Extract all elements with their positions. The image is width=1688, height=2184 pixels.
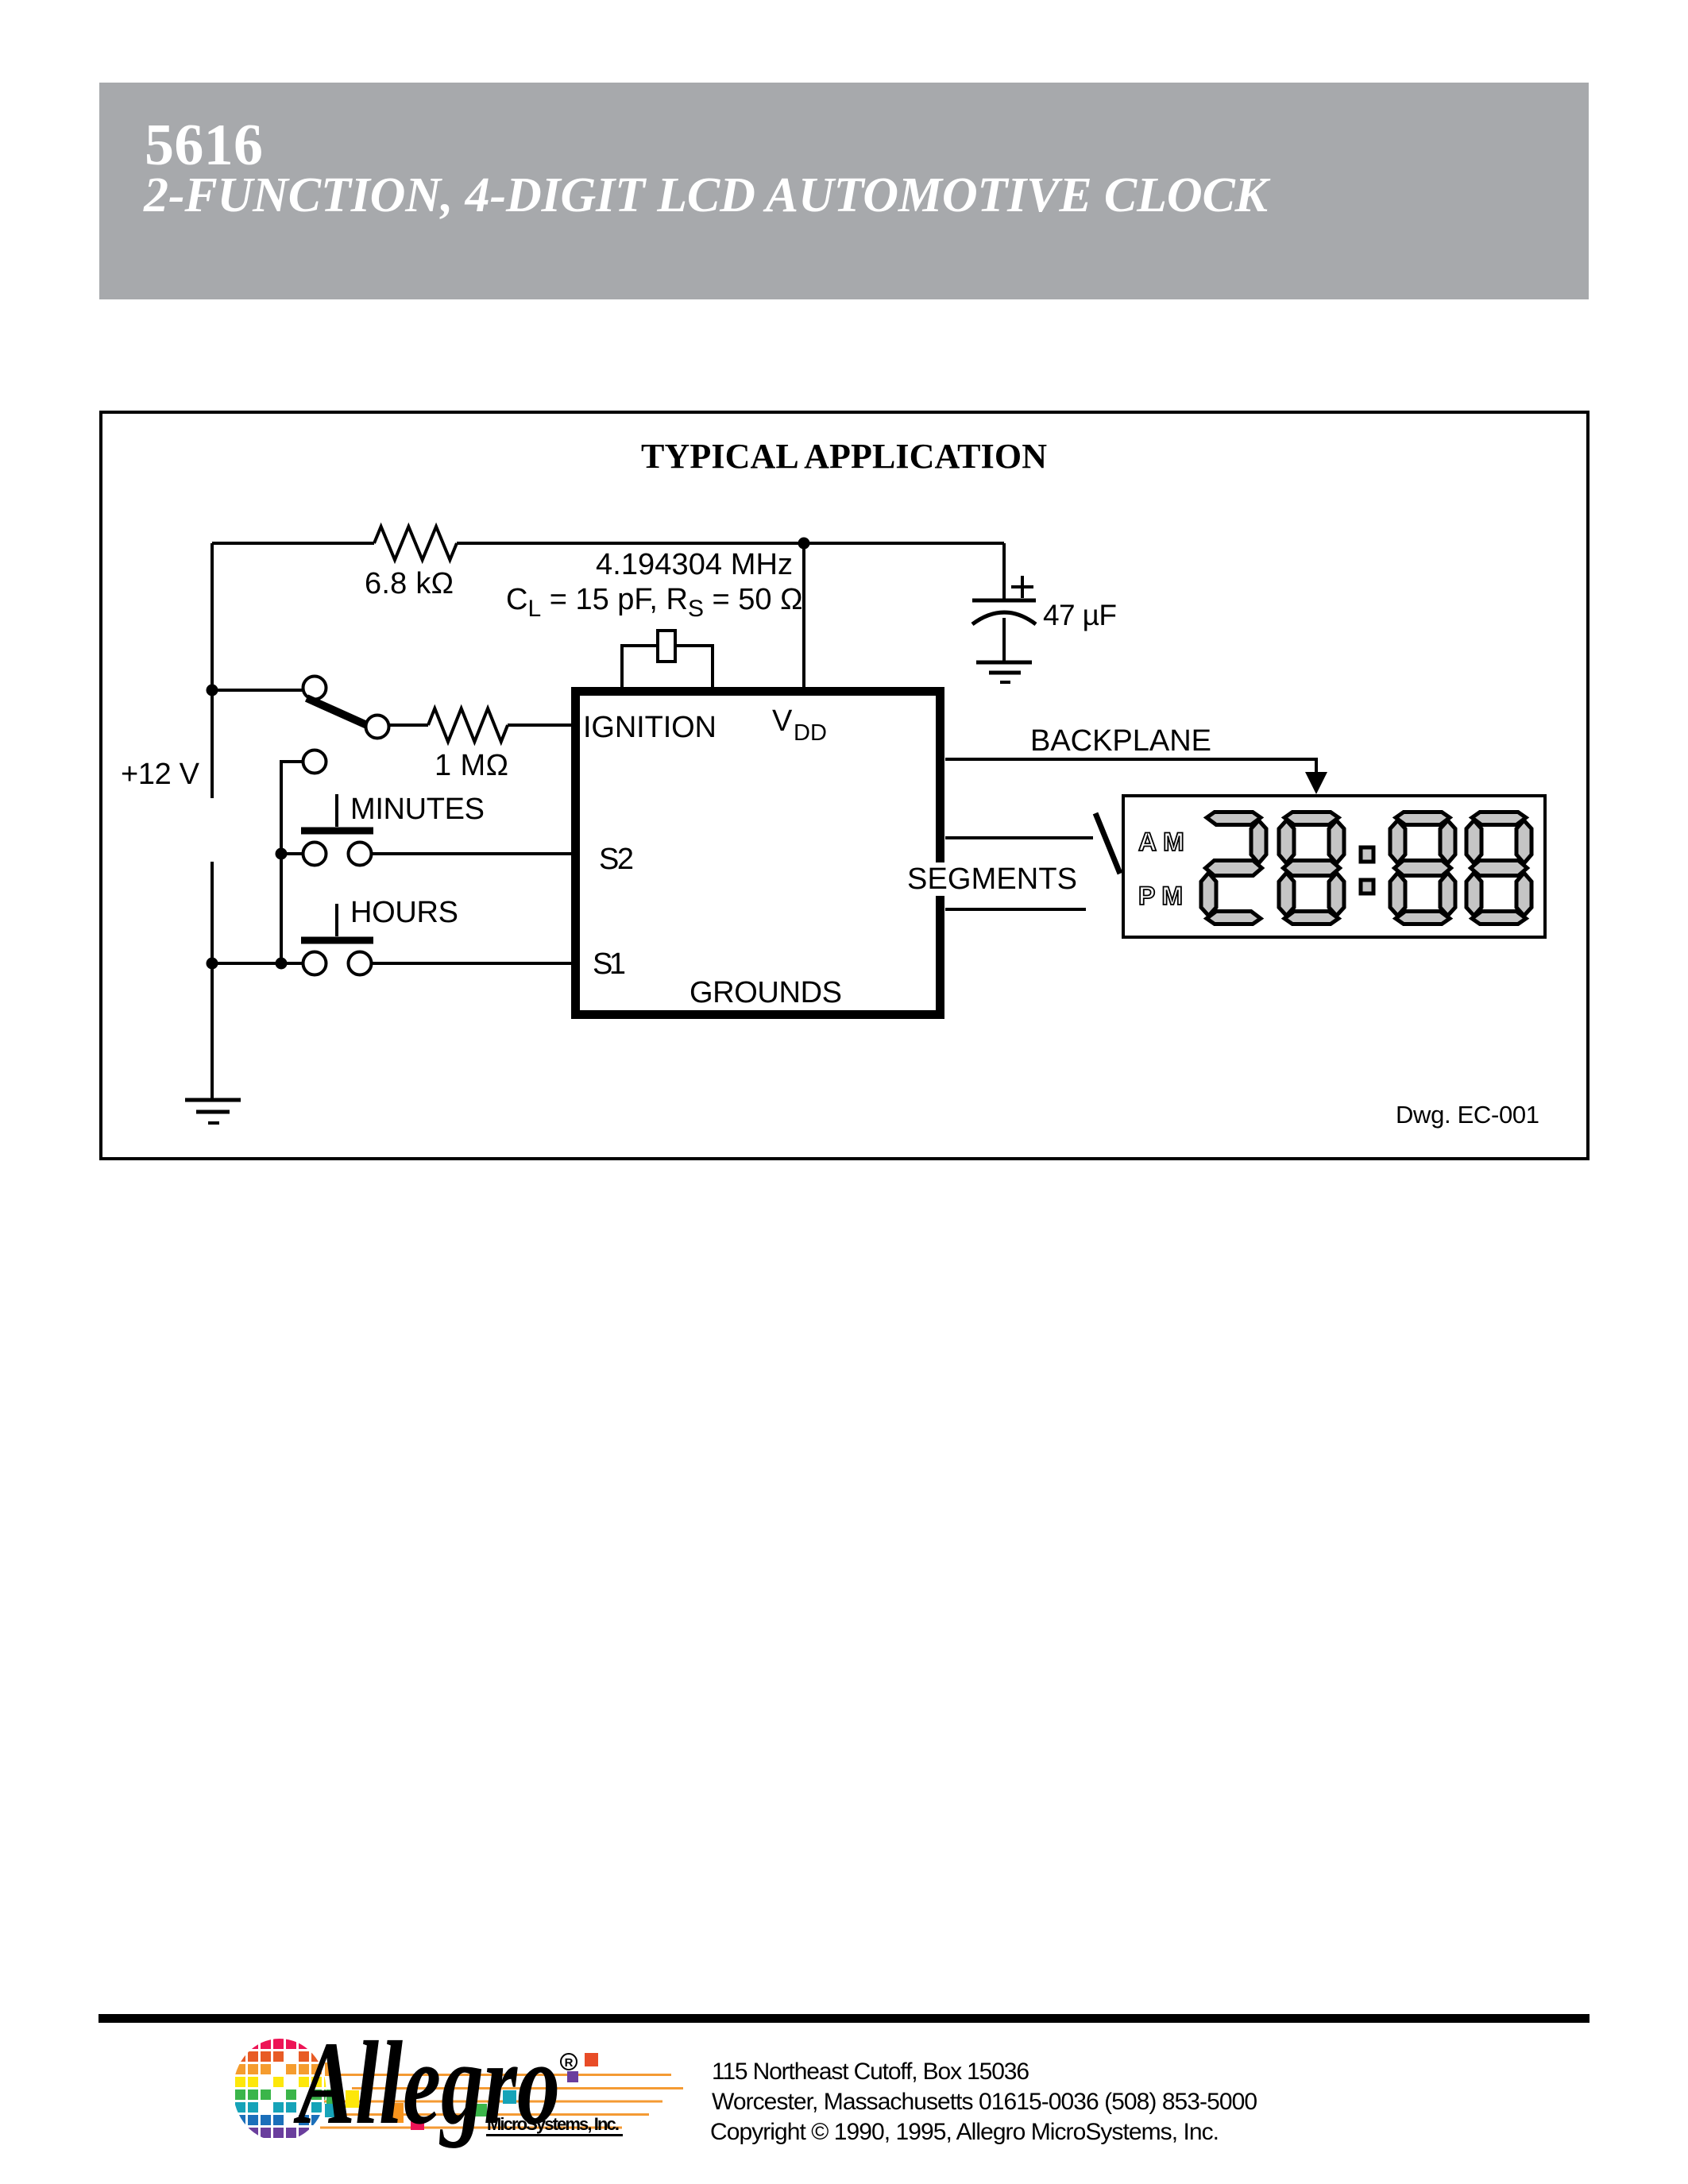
node junction ignition branch bbox=[207, 685, 218, 696]
svg-text:PM: PM bbox=[1138, 882, 1189, 910]
wire S2 bbox=[372, 852, 571, 855]
wire VDD bbox=[802, 543, 805, 687]
svg-text:6.8 kΩ: 6.8 kΩ bbox=[365, 567, 454, 600]
svg-text:Worcester, Massachusetts 01615: Worcester, Massachusetts 01615-0036 (508… bbox=[712, 2089, 1257, 2115]
crystal Y1 body bbox=[658, 631, 675, 662]
wire left rail lower bbox=[211, 862, 214, 1100]
LCD colon lower square bbox=[1361, 880, 1373, 893]
wire S1 left bbox=[212, 962, 303, 965]
svg-text:V: V bbox=[772, 704, 793, 738]
Allegro logo underline bbox=[486, 2134, 623, 2136]
pushbutton MINUTES right contact bbox=[349, 843, 372, 866]
node junction VDD rail bbox=[798, 538, 810, 550]
svg-text:2-FUNCTION, 4-DIGIT LCD AUTOMO: 2-FUNCTION, 4-DIGIT LCD AUTOMOTIVE CLOCK bbox=[143, 168, 1271, 222]
LCD digit 1 showing 2 bbox=[1201, 812, 1266, 924]
node junction minutes rail bbox=[276, 848, 288, 860]
LCD digit 2 showing 8 bbox=[1279, 812, 1344, 924]
svg-text:+12 V: +12 V bbox=[121, 758, 200, 791]
svg-text:4.194304 MHz: 4.194304 MHz bbox=[596, 548, 793, 581]
svg-text:TYPICAL APPLICATION: TYPICAL APPLICATION bbox=[641, 437, 1047, 476]
header banner bbox=[99, 83, 1589, 299]
svg-text:Dwg. EC-001: Dwg. EC-001 bbox=[1396, 1101, 1539, 1129]
pushbutton MINUTES actuator bbox=[301, 794, 373, 831]
bus slash on segments wire bbox=[1095, 813, 1120, 874]
pushbutton HOURS actuator bbox=[301, 904, 373, 940]
capacitor C1 top plate bbox=[972, 599, 1036, 603]
svg-text:MINUTES: MINUTES bbox=[350, 793, 485, 826]
switch S ignition throw contact bbox=[366, 716, 389, 739]
svg-text:SEGMENTS: SEGMENTS bbox=[907, 862, 1077, 896]
svg-text:S1: S1 bbox=[593, 947, 626, 981]
footer rule bbox=[98, 2014, 1590, 2023]
svg-text:47 µF: 47 µF bbox=[1043, 599, 1117, 631]
switch S ignition arm bbox=[307, 698, 369, 726]
wire capacitor branch bbox=[1002, 543, 1006, 599]
capacitor C1 polarity plus bbox=[1011, 576, 1033, 598]
pushbutton HOURS left contact bbox=[303, 952, 326, 975]
switch S ignition pivot contact bbox=[303, 677, 326, 700]
wire top rail left segment bbox=[212, 542, 374, 545]
pushbutton MINUTES left contact bbox=[303, 843, 326, 866]
svg-text:115 Northeast Cutoff, Box 1503: 115 Northeast Cutoff, Box 15036 bbox=[712, 2059, 1029, 2085]
wire throw to resistor bbox=[389, 723, 428, 727]
wire SEGMENTS lower bbox=[945, 908, 1086, 911]
figure frame bbox=[101, 412, 1588, 1159]
node junction hours rail bbox=[276, 958, 288, 970]
capacitor C1 curved plate bbox=[972, 612, 1036, 624]
Allegro logo orange score lines bbox=[320, 2075, 683, 2128]
resistor R 6.8 kOhm bbox=[374, 527, 457, 560]
svg-text:CL = 15 pF, RS = 50 Ω: CL = 15 pF, RS = 50 Ω bbox=[506, 583, 803, 622]
svg-text:BACKPLANE: BACKPLANE bbox=[1030, 724, 1211, 758]
node junction hours rail left bbox=[207, 958, 218, 970]
wire resistor to IGNITION pin bbox=[508, 723, 571, 727]
ground symbol capacitor bbox=[976, 662, 1032, 682]
LCD colon upper square bbox=[1361, 847, 1373, 862]
wire junction to MINUTES left contact bbox=[281, 852, 303, 855]
wire SEGMENTS upper bbox=[945, 836, 1093, 839]
svg-text:MicroSystems, Inc.: MicroSystems, Inc. bbox=[487, 2114, 620, 2134]
wire BACKPLANE bbox=[945, 759, 1316, 774]
svg-text:IGNITION: IGNITION bbox=[583, 711, 717, 744]
svg-text:GROUNDS: GROUNDS bbox=[689, 976, 842, 1009]
svg-text:HOURS: HOURS bbox=[350, 896, 458, 929]
wire capacitor to ground bbox=[1002, 618, 1006, 661]
wire ignition branch bbox=[212, 689, 303, 692]
LCD display module body bbox=[1123, 796, 1545, 937]
svg-text:1 MΩ: 1 MΩ bbox=[435, 749, 508, 782]
switch S ignition lower contact bbox=[303, 751, 326, 774]
Allegro logo script wordmark bbox=[293, 2018, 560, 2149]
crystal Y1 leads bbox=[622, 646, 656, 687]
resistor R 1 MOhm bbox=[428, 708, 508, 742]
wire ignition lower contact to button rail bbox=[281, 762, 303, 963]
LCD digit 4 showing 8 bbox=[1466, 812, 1532, 924]
backplane arrowhead bbox=[1305, 772, 1327, 794]
svg-text:R: R bbox=[565, 2056, 574, 2070]
IC U1 5616 body bbox=[576, 692, 941, 1015]
svg-text:S2: S2 bbox=[599, 843, 634, 876]
svg-text:DD: DD bbox=[794, 720, 827, 746]
Allegro logo scattered tiles bbox=[325, 2062, 335, 2076]
Allegro logo mosaic wafer bbox=[235, 2039, 334, 2138]
Allegro logo registered mark bbox=[561, 2054, 577, 2070]
pushbutton HOURS right contact bbox=[349, 952, 372, 975]
wire S1 bbox=[372, 962, 571, 965]
svg-text:AM: AM bbox=[1138, 828, 1191, 856]
LCD digit 3 showing 8 bbox=[1390, 812, 1455, 924]
wire left rail upper bbox=[211, 543, 214, 798]
ground symbol left bbox=[185, 1100, 241, 1123]
label SEGMENTS background bbox=[902, 862, 1082, 896]
svg-text:Copyright © 1990, 1995, Allegr: Copyright © 1990, 1995, Allegro MicroSys… bbox=[710, 2119, 1219, 2145]
wire top rail right segment bbox=[457, 542, 1004, 545]
